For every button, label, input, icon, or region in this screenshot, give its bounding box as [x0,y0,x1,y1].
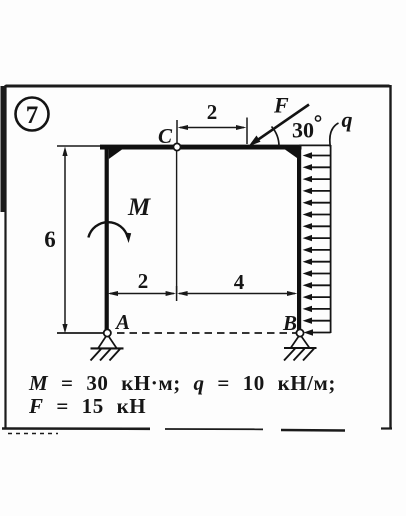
svg-text:q: q [342,107,353,132]
extension line bottom left (for dim 6) [57,332,104,334]
svg-text:B: B [282,311,297,335]
svg-text:C: C [158,124,173,148]
support at A (pin with hatched ground) [91,336,124,361]
node C (hinge circle) [173,143,180,150]
dimension 4 bottom (C line to B column) [177,291,297,296]
frame top beam C span [100,145,302,150]
svg-text:F: F [273,93,289,118]
right column B-top [297,147,301,330]
distributed load q right boundary line [330,145,332,333]
q leader curve [330,123,339,147]
node A (pin circle) [104,329,111,336]
top-left corner wedge [109,150,122,160]
svg-text:2: 2 [138,269,149,293]
dimension 2 top (C to F point) [178,125,247,130]
distributed load arrows [303,152,331,335]
svg-text:M = 30 кН·м; q = 10 кН/м;: M = 30 кН·м; q = 10 кН/м; [28,371,336,395]
dashed line A to B [117,332,296,334]
node B (pin circle) [296,329,303,336]
svg-text:4: 4 [234,270,245,294]
extension line top left (for dim 6) [57,145,102,147]
problem number badge "7" [16,98,49,131]
dimension 2 bottom (A column to C line) [107,291,176,296]
moment M arc with arrow on left column [88,222,131,243]
svg-text:6: 6 [44,227,56,252]
outer border frame of problem box [1,85,393,434]
distributed load q top line [299,144,331,146]
svg-text:30: 30 [292,118,314,143]
thin vertical line below C (extension to bottom dimension) [176,151,178,294]
tick above C [176,120,178,143]
support at B (pin with hatched ground) [284,336,317,361]
tick at F application point [246,118,248,145]
top-right corner wedge [285,150,297,159]
svg-text:A: A [114,310,130,334]
force F (inclined arrow at 30deg) [249,105,309,147]
30 degree angle arc [272,127,280,147]
left column A-top [105,147,109,330]
tick between dims 2 and 4 [176,286,178,301]
dimension 6 (left vertical dimension line with arrows) [62,147,67,334]
svg-text:F = 15 кН: F = 15 кН [28,394,146,418]
svg-text:2: 2 [207,100,218,124]
svg-text:M: M [127,194,151,221]
svg-text:7: 7 [26,102,39,129]
